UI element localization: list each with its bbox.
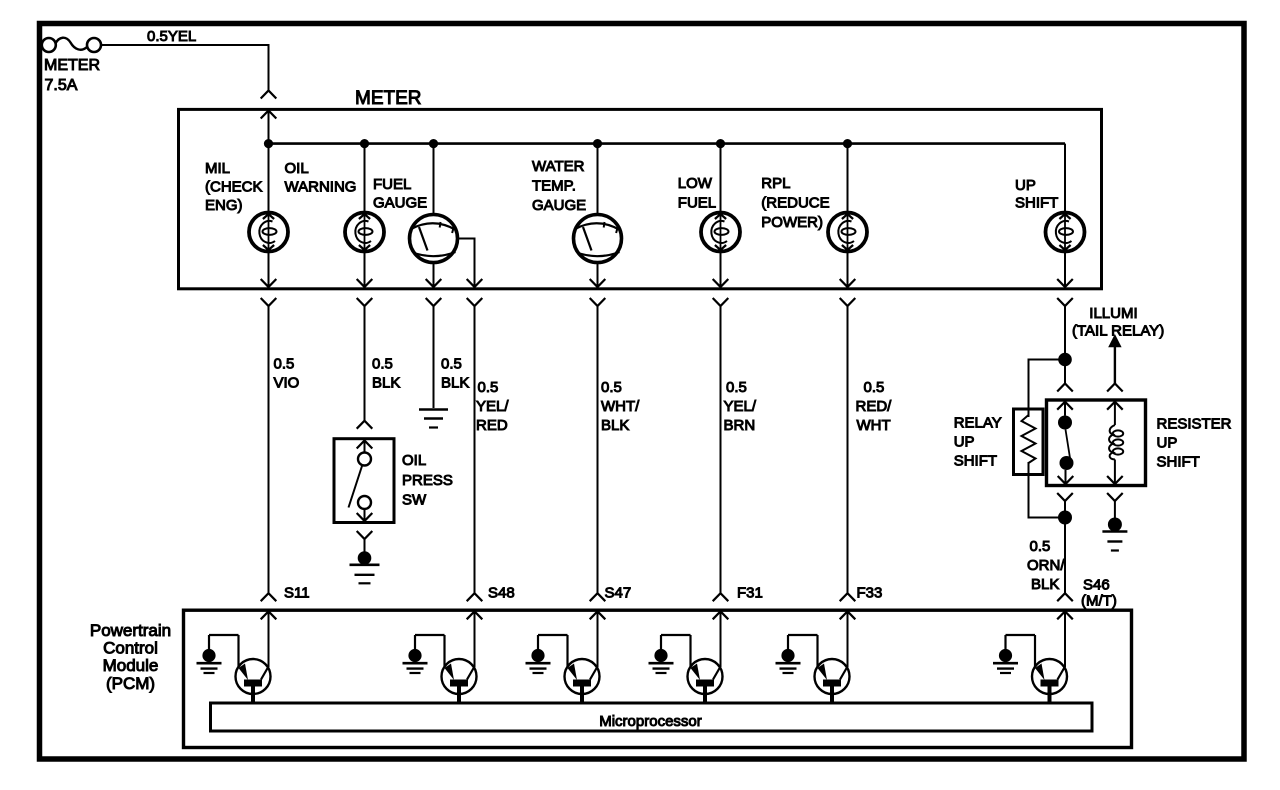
svg-text:GAUGE: GAUGE — [373, 195, 427, 212]
svg-text:S46: S46 — [1083, 577, 1110, 594]
svg-text:S47: S47 — [605, 585, 632, 602]
svg-text:RESISTER: RESISTER — [1157, 416, 1232, 433]
svg-text:PRESS: PRESS — [402, 472, 453, 489]
svg-text:WHT/: WHT/ — [601, 398, 640, 415]
svg-text:BLK: BLK — [441, 375, 469, 392]
svg-text:0.5: 0.5 — [274, 356, 295, 373]
svg-text:Control: Control — [103, 639, 158, 658]
svg-text:RED/: RED/ — [856, 398, 893, 415]
svg-text:Module: Module — [103, 656, 159, 675]
svg-text:0.5: 0.5 — [601, 379, 622, 396]
svg-text:S11: S11 — [284, 585, 310, 602]
svg-text:F31: F31 — [737, 585, 763, 602]
svg-text:MIL: MIL — [205, 160, 230, 177]
svg-text:F33: F33 — [857, 585, 883, 602]
svg-text:0.5: 0.5 — [478, 379, 499, 396]
svg-text:SHIFT: SHIFT — [954, 453, 997, 470]
svg-text:WHT: WHT — [857, 417, 891, 434]
svg-text:BLK: BLK — [372, 375, 400, 392]
svg-text:SHIFT: SHIFT — [1015, 195, 1058, 212]
svg-text:BRN: BRN — [724, 417, 756, 434]
svg-text:0.5: 0.5 — [372, 356, 393, 373]
svg-text:OIL: OIL — [285, 160, 309, 177]
svg-text:S48: S48 — [488, 585, 515, 602]
svg-text:RELAY: RELAY — [954, 415, 1002, 432]
svg-text:SHIFT: SHIFT — [1157, 453, 1200, 470]
svg-text:ENG): ENG) — [205, 197, 243, 214]
svg-text:(CHECK: (CHECK — [205, 179, 263, 196]
svg-text:OIL: OIL — [402, 452, 426, 469]
svg-text:0.5: 0.5 — [1030, 538, 1051, 555]
svg-text:GAUGE: GAUGE — [532, 197, 586, 214]
svg-text:ILLUMI: ILLUMI — [1089, 305, 1137, 322]
svg-text:Powertrain: Powertrain — [90, 621, 171, 640]
svg-text:WATER: WATER — [532, 158, 585, 175]
svg-text:0.5: 0.5 — [441, 356, 462, 373]
svg-text:(M/T): (M/T) — [1081, 593, 1117, 610]
svg-text:0.5: 0.5 — [864, 379, 885, 396]
svg-text:UP: UP — [1157, 435, 1178, 452]
svg-text:YEL/: YEL/ — [724, 398, 757, 415]
svg-text:UP: UP — [954, 434, 975, 451]
svg-text:(REDUCE: (REDUCE — [761, 195, 829, 212]
svg-text:UP: UP — [1015, 177, 1036, 194]
svg-text:7.5A: 7.5A — [45, 77, 78, 94]
svg-text:FUEL: FUEL — [678, 195, 716, 212]
svg-text:WARNING: WARNING — [285, 179, 357, 196]
svg-text:YEL/: YEL/ — [476, 398, 509, 415]
svg-text:BLK: BLK — [1031, 576, 1059, 593]
svg-text:TEMP.: TEMP. — [532, 178, 576, 195]
svg-text:Microprocessor: Microprocessor — [599, 713, 702, 730]
svg-text:0.5YEL: 0.5YEL — [147, 28, 196, 45]
svg-text:FUEL: FUEL — [373, 176, 411, 193]
svg-text:RED: RED — [476, 417, 508, 434]
svg-text:BLK: BLK — [601, 417, 629, 434]
svg-text:METER: METER — [44, 57, 100, 74]
svg-text:METER: METER — [355, 88, 422, 109]
svg-text:0.5: 0.5 — [726, 379, 747, 396]
svg-text:LOW: LOW — [678, 175, 713, 192]
svg-text:(TAIL RELAY): (TAIL RELAY) — [1072, 323, 1164, 340]
svg-text:RPL: RPL — [761, 175, 790, 192]
svg-text:(PCM): (PCM) — [106, 674, 155, 693]
svg-text:SW: SW — [402, 492, 427, 509]
svg-text:POWER): POWER) — [761, 214, 823, 231]
svg-text:ORN/: ORN/ — [1027, 557, 1065, 574]
svg-text:VIO: VIO — [274, 375, 300, 392]
